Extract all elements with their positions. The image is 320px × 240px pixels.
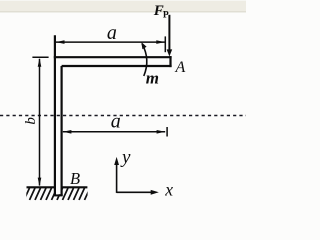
ground surface line: [27, 186, 88, 188]
x axis arrowhead: [151, 190, 159, 195]
column right edge: [60, 66, 62, 196]
left dimension b: bottom arrowhead: [38, 178, 42, 187]
ground hatching at support B: [24, 188, 90, 200]
beam right end cap at A: [169, 56, 171, 67]
force F_P arrow line: [168, 15, 170, 51]
svg-text:P: P: [163, 10, 169, 20]
left dimension b: line: [39, 59, 41, 186]
svg-text:A: A: [175, 59, 186, 76]
y axis line: [116, 161, 118, 193]
svg-text:a: a: [111, 111, 121, 133]
beam top edge: [54, 56, 172, 58]
x axis line: [117, 191, 155, 193]
paper background: [0, 0, 246, 213]
svg-text:b: b: [23, 117, 39, 125]
moment m arc: [142, 44, 147, 76]
lower dimension a: left arrowhead: [63, 130, 72, 134]
svg-text:B: B: [70, 169, 80, 188]
top dimension a: left arrowhead: [56, 40, 65, 44]
top dimension a: right end tick: [164, 36, 166, 52]
lower dimension a: right end tick: [166, 127, 168, 137]
lower dimension a: line: [63, 131, 165, 133]
svg-text:y: y: [120, 147, 131, 168]
column interior mask (white inside of member at B): [56, 150, 61, 194]
y axis arrowhead: [114, 157, 119, 165]
svg-text:x: x: [164, 180, 173, 200]
faint band boundary line: [0, 11, 246, 13]
top dimension a: right arrowhead: [156, 40, 165, 44]
left dimension b: top tick: [32, 56, 48, 58]
svg-text:a: a: [107, 22, 117, 44]
faint scan band along top edge: [0, 1, 246, 12]
column bottom end cap: [54, 194, 63, 196]
top dimension a: line: [56, 41, 165, 43]
left dimension b: top arrowhead: [38, 58, 42, 67]
column left edge (with dimension extension above corner): [54, 35, 56, 195]
svg-text:m: m: [146, 68, 159, 87]
moment m arrowhead: [141, 42, 146, 49]
beam bottom edge: [62, 65, 172, 67]
dashed reference centerline: [0, 115, 246, 117]
force F_P arrowhead: [167, 49, 173, 56]
lower dimension a: right arrowhead: [157, 130, 166, 134]
